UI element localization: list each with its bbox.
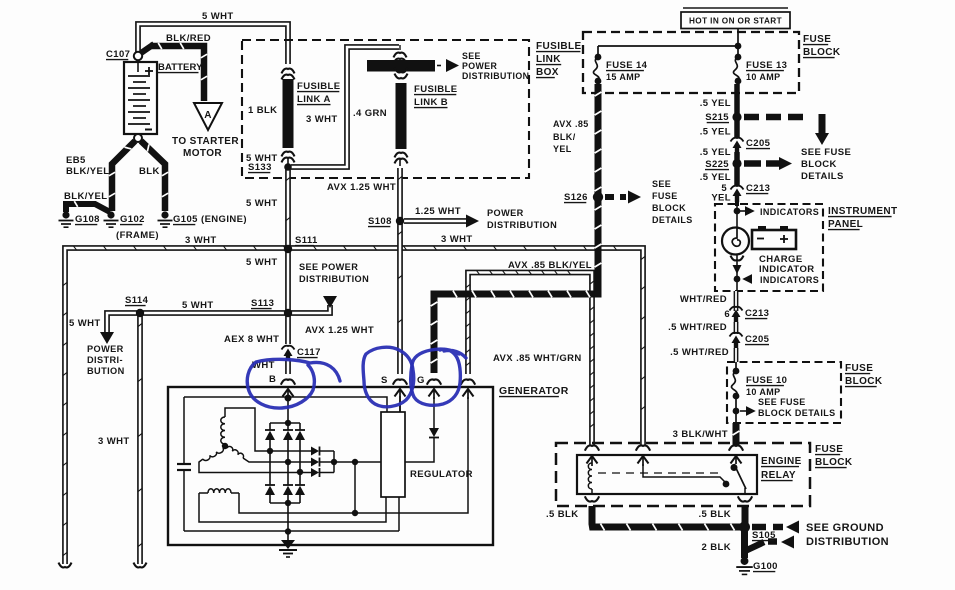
svg-text:BLOCK: BLOCK [815,457,853,468]
wire L terminal to field node [355,397,468,513]
arrow S114 to power distribution [107,313,138,332]
wire AVX 1.25 WHT link B to S108 [397,168,403,219]
svg-text:SEE FUSE: SEE FUSE [801,147,851,158]
svg-text:INDICATOR: INDICATOR [759,264,815,275]
generator case ground [281,540,295,549]
svg-text:.5 YEL: .5 YEL [700,172,731,183]
charge indicator battery icon [758,226,766,231]
rotor field winding [208,489,231,493]
svg-text:MOTOR: MOTOR [183,148,222,159]
svg-text:BLOCK: BLOCK [801,159,837,170]
svg-text:DISTRIBUTION: DISTRIBUTION [462,71,529,81]
wire WHT C117 to generator B terminal [285,360,291,374]
svg-text:5 WHT: 5 WHT [69,318,101,329]
arrow S108 power distribution [404,218,466,224]
blue pen circle around B terminal [247,359,340,408]
svg-text:FUSIBLE: FUSIBLE [414,84,457,95]
svg-text:AVX .85: AVX .85 [553,119,589,129]
svg-text:DISTRIBUTION: DISTRIBUTION [299,274,369,284]
wire 5 WHT S113 to S114 [140,310,285,316]
svg-text:YEL: YEL [711,193,731,204]
svg-text:POWER: POWER [462,61,497,71]
generator [168,387,493,545]
svg-text:LINK: LINK [536,54,561,65]
svg-text:DETAILS: DETAILS [801,171,844,182]
fusible link A [282,69,295,74]
svg-text:BLK/YEL: BLK/YEL [64,191,107,202]
svg-text:AVX .85 BLK/YEL: AVX .85 BLK/YEL [508,260,592,271]
svg-text:AVX .85 WHT/GRN: AVX .85 WHT/GRN [493,353,582,364]
voltage regulator [381,412,405,497]
wire AVX .85 WHT/GRN generator L terminal to engine relay [468,273,592,446]
connector C213 (lower) [730,307,743,311]
svg-text:BLK/YEL: BLK/YEL [66,166,109,177]
fusible link B [395,74,408,79]
svg-text:G100: G100 [753,561,778,572]
svg-text:FUSE: FUSE [845,363,873,374]
wire .5 YEL S225 to C213 [734,167,740,185]
svg-text:YEL: YEL [553,144,572,154]
fuse 10 10 AMP [735,362,737,371]
svg-text:.5 YEL: .5 YEL [700,147,731,158]
svg-text:ENGINE: ENGINE [761,456,802,467]
svg-text:BLOCK: BLOCK [652,203,686,213]
svg-text:C213: C213 [745,308,769,319]
wire regulator to ground bus [398,497,400,531]
svg-text:(ENGINE): (ENGINE) [201,214,247,225]
wire into charge indicator lamp [736,204,738,227]
rectifier bridge negative bar [270,502,300,504]
svg-text:C205: C205 [746,138,771,149]
rectifier diode positive 1 [269,423,271,430]
relay mechanical link [598,472,722,474]
fuse 13 10 AMP [733,57,739,81]
wire 3 WHT left drop end [59,563,72,568]
svg-text:INDICATORS: INDICATORS [760,275,819,285]
arrow see power distribution (link B) [437,65,444,67]
stator phase line 1 [270,450,311,452]
stator winding (wye) [221,417,225,444]
wire fuse 14 branch [598,45,738,47]
svg-text:PANEL: PANEL [828,219,863,230]
svg-text:2 BLK: 2 BLK [702,542,731,553]
generator internal ground bus [184,530,399,532]
svg-text:SEE FUSE: SEE FUSE [758,397,806,407]
generator internal B+ bus [184,397,387,412]
svg-text:BLK: BLK [139,166,160,177]
arrow see ground distribution [752,524,783,531]
svg-text:DISTRIBUTION: DISTRIBUTION [806,536,889,548]
svg-text:C117: C117 [297,347,321,358]
svg-text:S133: S133 [248,162,272,173]
svg-text:SEE: SEE [462,51,481,61]
svg-text:10 AMP: 10 AMP [746,387,781,397]
rectifier bridge positive bar [287,399,289,423]
rectifier diode negative 2 [283,484,293,486]
arrow S225 see fuse block details [744,160,761,167]
svg-text:G108: G108 [75,214,100,225]
svg-text:C107: C107 [106,49,130,60]
wire 5 YEL C213 to instrument panel [735,200,739,206]
svg-text:3 WHT: 3 WHT [185,235,217,246]
svg-text:BOX: BOX [536,67,559,78]
svg-text:10 AMP: 10 AMP [746,72,781,82]
svg-text:BLOCK: BLOCK [845,376,883,387]
generator case ground wire [287,503,289,543]
svg-text:5 WHT: 5 WHT [202,11,234,22]
relay pin 2 (AVX .85 WHT) [636,445,650,450]
arrow from indicators (bottom) [742,274,752,284]
svg-text:1.25 WHT: 1.25 WHT [415,206,461,217]
wire WHT/RED instrument panel to C213 [734,291,739,311]
svg-text:15 AMP: 15 AMP [606,72,641,82]
wire BLK/YEL branch to G108 [66,204,110,212]
relay pin 3 (3 BLK/WHT) [729,445,743,450]
svg-text:S113: S113 [251,298,274,309]
diode trio 3 [311,468,319,477]
svg-text:BATTERY: BATTERY [158,62,203,73]
svg-text:5 WHT: 5 WHT [246,198,278,209]
svg-text:SEE GROUND: SEE GROUND [806,522,884,534]
field discharge diode (G branch) [433,397,435,428]
connector C107 [134,52,142,60]
wire BLK/RED battery to starter [141,44,154,53]
svg-text:5 WHT: 5 WHT [182,300,214,311]
svg-text:3 BLK/WHT: 3 BLK/WHT [673,429,728,440]
fuse block (fuse 10) [727,362,841,423]
arrow to indicators (top) [740,210,745,212]
svg-text:3 WHT: 3 WHT [441,234,473,245]
svg-text:G: G [417,375,425,386]
arrow fuse 10 see fuse block details [740,410,746,412]
svg-text:POWER: POWER [487,208,524,218]
svg-text:BLOCK DETAILS: BLOCK DETAILS [758,408,836,418]
svg-text:DETAILS: DETAILS [652,215,693,225]
svg-text:BLK/: BLK/ [553,132,576,142]
relay switch [643,464,726,483]
wire 3 BLK/WHT fuse 10 to engine relay [733,423,740,446]
svg-text:FUSIBLE: FUSIBLE [536,41,582,52]
svg-text:G105: G105 [173,214,198,225]
svg-text:FUSE 14: FUSE 14 [606,60,648,71]
wire AVX 1.25 WHT S108 to generator S terminal [397,223,403,374]
svg-text:.4 GRN: .4 GRN [353,108,387,119]
diode trio 1 [311,447,319,456]
svg-text:.5 YEL: .5 YEL [700,127,731,138]
rectifier diode negative 1 [265,484,275,486]
diode trio 2 [311,458,319,467]
svg-text:FUSE: FUSE [815,444,843,455]
diode trio output node [333,451,335,473]
connector C213 [731,186,744,190]
rectifier diode negative 3 [295,484,305,486]
suppression capacitor [183,397,185,463]
wire .5 YEL fuse 13 to S215 [734,84,740,114]
svg-text:AVX 1.25 WHT: AVX 1.25 WHT [305,325,374,336]
svg-text:.5 BLK: .5 BLK [546,509,579,520]
svg-text:HOT IN ON OR START: HOT IN ON OR START [689,17,782,26]
ground G105 (engine) [158,220,173,222]
engine relay [577,455,757,494]
junction dots [62,211,69,218]
wire .5 YEL C205 to S225 [734,152,740,160]
svg-text:3 WHT: 3 WHT [306,114,338,125]
svg-text:FUSIBLE: FUSIBLE [297,81,340,92]
svg-text:5 WHT: 5 WHT [246,257,278,268]
arrow AVX 1.25 WHT into S113 [291,305,330,313]
svg-text:S225: S225 [705,159,729,170]
fusible link box [242,40,529,178]
rectifier diode positive 3 [299,423,301,430]
svg-text:A: A [204,110,212,121]
svg-text:TO STARTER: TO STARTER [172,136,239,147]
svg-text:S: S [381,375,388,386]
svg-text:AVX 1.25 WHT: AVX 1.25 WHT [327,182,396,193]
svg-text:FUSE: FUSE [803,34,831,45]
svg-text:LINK B: LINK B [414,97,448,108]
svg-text:BLK/RED: BLK/RED [166,33,211,44]
svg-text:1 BLK: 1 BLK [248,105,277,116]
wire field winding to field node [239,493,355,513]
svg-text:FUSE 13: FUSE 13 [746,60,787,71]
off-page connector A to starter motor [194,103,222,130]
ground G108 [59,220,74,222]
svg-text:C205: C205 [745,334,770,345]
instrument panel [715,204,823,291]
svg-text:.5 WHT/RED: .5 WHT/RED [670,347,729,358]
charge indicator lamp [722,228,749,255]
wire .5 YEL S215 to C205 [734,120,740,138]
svg-text:FUSE 10: FUSE 10 [746,375,787,386]
wire lamp to indicators (bottom) [736,255,738,291]
connector C205 [731,138,744,142]
svg-text:FUSE: FUSE [652,191,678,201]
svg-text:SEE POWER: SEE POWER [299,262,358,272]
wire 5 WHT battery to fusible link A [138,24,288,64]
wire .5 WHT/RED C205 to fuse block [734,348,739,362]
wire S114 drop [137,315,143,564]
svg-text:GENERATOR: GENERATOR [499,385,569,397]
svg-text:LINK A: LINK A [297,94,331,105]
svg-text:S105: S105 [752,530,776,541]
fuse 14 15 AMP [593,57,599,81]
blue pen circle around G terminal [411,349,466,405]
svg-text:REGULATOR: REGULATOR [410,469,473,480]
wire field winding to regulator [199,493,386,522]
wire 3 WHT S111 to generator area [65,248,643,564]
generator terminal L [461,379,475,384]
svg-text:SEE: SEE [652,179,671,189]
wire .5 BLK relay to ground junction [592,506,744,527]
rectifier diode positive 2 [287,423,289,430]
wire hot feed into fuse block [737,29,739,58]
artifact line above hot box [683,7,788,9]
blue pen circle around S terminal [363,347,414,407]
relay pin 1 (WHT/GRN) [585,445,599,450]
svg-text:(FRAME): (FRAME) [116,230,159,241]
wire 5 WHT S133 to S111 [285,169,291,246]
svg-text:.5 YEL: .5 YEL [700,98,731,109]
battery [124,62,157,134]
wire fuse 10 to relay [735,396,737,423]
relay switch output pin [738,496,752,501]
svg-text:.5 BLK: .5 BLK [699,509,732,520]
svg-text:B: B [269,374,276,385]
connector C117 [282,346,295,350]
svg-text:AEX 8 WHT: AEX 8 WHT [224,334,279,345]
svg-text:S215: S215 [705,112,729,123]
relay coil ground pin [585,496,599,501]
ground G102 (frame) [104,220,119,222]
ground G100 [736,566,753,568]
wire trio node to field node [354,462,356,513]
wire AEX 8 WHT S113 to C117 [285,315,291,344]
wire S terminal to regulator [399,396,401,412]
svg-text:C213: C213 [746,183,770,194]
relay coil [588,463,592,489]
svg-text:S108: S108 [368,216,392,227]
svg-text:3 WHT: 3 WHT [98,436,130,447]
wire EB5 BLK/YEL battery negative to G102 [112,141,135,211]
wire BLK battery negative to G105 [141,141,165,211]
svg-text:DISTRI-: DISTRI- [87,355,123,365]
svg-text:.5 WHT/RED: .5 WHT/RED [668,322,727,333]
arrow S126 see fuse block details [605,194,626,200]
svg-text:INSTRUMENT: INSTRUMENT [828,206,898,217]
svg-text:S126: S126 [564,192,588,203]
svg-text:POWER: POWER [87,344,124,354]
connector C205 (lower) [730,333,743,337]
wire 3 WHT S133 to fusible link B [291,47,399,167]
wire 5 WHT S111 to S113 [285,251,291,311]
svg-text:WHT/RED: WHT/RED [680,294,727,305]
svg-text:G102: G102 [120,214,145,225]
svg-text:INDICATORS: INDICATORS [760,207,819,217]
fuse block (engine relay) [556,443,810,506]
svg-text:DISTRIBUTION: DISTRIBUTION [487,220,557,230]
svg-text:EB5: EB5 [66,155,86,166]
wire AVX .85 BLK/YEL fuse 14 to generator G terminal [434,84,598,373]
wire .5 WHT/RED C213 to C205 [734,322,739,334]
power feed HOT IN ON OR START [681,12,790,29]
svg-text:RELAY: RELAY [761,470,796,481]
svg-text:S111: S111 [295,235,318,246]
fuse block (top) [583,32,799,93]
svg-text:6: 6 [724,309,730,320]
svg-text:S114: S114 [125,295,149,306]
arrow S215 see fuse block details [744,114,806,121]
splice S105 [741,527,748,558]
svg-text:BUTION: BUTION [87,366,125,376]
svg-text:BLOCK: BLOCK [803,47,841,58]
fusible link B feed bar [394,53,407,58]
